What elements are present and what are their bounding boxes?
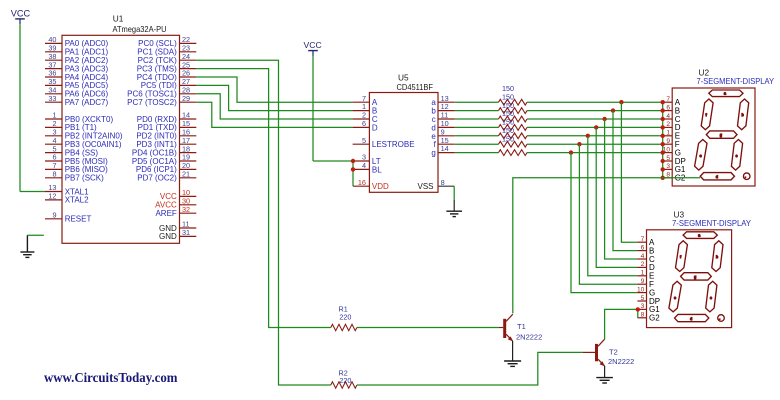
svg-text:5: 5 (362, 136, 366, 145)
svg-text:T2: T2 (609, 348, 618, 357)
resistor 150 (segment f) (455, 143, 499, 145)
svg-text:7: 7 (666, 96, 670, 103)
svg-text:a: a (698, 233, 700, 237)
wire T2 emitter to ground (604, 366, 606, 378)
svg-text:www.CircuitsToday.com: www.CircuitsToday.com (44, 370, 178, 385)
wire 150 resistor to U2 pin A (527, 101, 663, 103)
svg-text:6: 6 (362, 119, 366, 128)
power symbol VCC (above U5) (304, 40, 322, 56)
svg-text:7-SEGMENT-DISPLAY: 7-SEGMENT-DISPLAY (672, 218, 751, 228)
svg-text:5: 5 (666, 155, 670, 162)
svg-text:PB7 (SCK): PB7 (SCK) (65, 174, 104, 183)
wire T1 emitter to ground (512, 341, 514, 361)
svg-text:a: a (724, 92, 726, 96)
svg-text:e: e (674, 296, 676, 300)
U5 pin 3 LT (353, 160, 369, 162)
svg-text:5: 5 (641, 295, 645, 302)
svg-text:.: . (745, 175, 746, 179)
svg-text:D: D (372, 123, 378, 132)
svg-text:d: d (716, 175, 718, 179)
U5 pin 8 VSS (438, 185, 454, 187)
wire U3 G1 to G2 (637, 309, 639, 317)
resistor R2 220 (331, 382, 357, 388)
svg-text:XTAL2: XTAL2 (65, 196, 89, 205)
wire VCC to XTAL1 (horizontal) (20, 191, 45, 193)
U5 pin 4 BL (353, 168, 369, 170)
wire PC6 pin28 to U5 C (196, 94, 352, 119)
svg-text:g: g (694, 275, 696, 279)
resistor R1 220 (331, 324, 357, 330)
wire bus along U2 pins (vertical) (662, 102, 664, 178)
svg-text:VDD: VDD (372, 182, 389, 191)
resistor 150 (segment a) (455, 101, 499, 103)
junction U2 pin D (661, 125, 665, 129)
junction U2 pin A (661, 100, 665, 104)
svg-text:GND: GND (159, 232, 177, 241)
junction U2 pin G2 (661, 176, 665, 180)
svg-text:4: 4 (641, 253, 645, 260)
wire VCC down to U5 LT row (312, 55, 314, 161)
wire 150 resistor to U2 pin F (527, 143, 663, 145)
svg-text:CD4511BF: CD4511BF (397, 82, 434, 92)
wire segment D down to U3 pin D (596, 127, 637, 267)
svg-text:9: 9 (641, 278, 645, 285)
svg-text:2: 2 (666, 121, 670, 128)
svg-text:4: 4 (666, 113, 670, 120)
svg-text:f: f (680, 255, 681, 259)
svg-text:RESET: RESET (65, 215, 92, 224)
wire segment C down to U3 pin C (605, 119, 638, 259)
svg-text:8: 8 (441, 178, 445, 187)
resistor 150 (segment d) (455, 126, 499, 128)
svg-text:31: 31 (182, 228, 190, 237)
svg-text:c: c (710, 296, 712, 300)
wire VSS to ground (453, 186, 455, 200)
U5 output pins a-g (stubs, numbers, names) (438, 101, 455, 103)
svg-text:220: 220 (339, 376, 351, 385)
junction U2 pin DP (661, 159, 665, 163)
IC U1 ATmega32A-PU body (62, 35, 180, 243)
U1 left pins PA0-PA7 (stubs, numbers, names) (45, 42, 62, 44)
U1 pin 12 XTAL2 (45, 199, 62, 201)
svg-text:VCC: VCC (304, 40, 322, 50)
ground symbol below T1 (504, 361, 521, 366)
svg-text:BL: BL (372, 165, 382, 174)
svg-text:g: g (431, 149, 435, 158)
resistor 150 (segment c) (455, 118, 499, 120)
svg-text:AREF: AREF (155, 209, 176, 218)
svg-text:32: 32 (182, 205, 190, 214)
svg-text:PA7 (ADC7): PA7 (ADC7) (65, 98, 109, 107)
svg-text:8: 8 (52, 170, 56, 179)
svg-text:U1: U1 (113, 14, 124, 24)
U1 right pins PC0-PC7 (stubs, numbers, names) (180, 42, 197, 44)
junction U2 pin B (661, 108, 665, 112)
ground symbol below U5 VSS (446, 211, 462, 216)
wire 150 resistor to U2 pin B (527, 110, 663, 112)
wire ground stub near U1 (horizontal) (27, 234, 43, 236)
svg-text:150: 150 (502, 134, 514, 143)
svg-text:220: 220 (339, 312, 351, 321)
svg-text:g: g (720, 133, 722, 137)
svg-text:2: 2 (641, 261, 645, 268)
junction U2 pin G (661, 150, 665, 154)
U5 pin 5 LESTROBE (353, 143, 370, 145)
U2 seven-segment digit segments a-g and dp (695, 90, 750, 180)
svg-text:1: 1 (666, 130, 670, 137)
resistor 150 (segment g) (455, 152, 499, 154)
wire PC4 pin26 to U5 A (196, 77, 352, 102)
junction U2 pin G1 (661, 167, 665, 171)
svg-text:4: 4 (362, 161, 366, 170)
wire segment A down to U3 pin A (621, 102, 637, 242)
wire R2 to T2 base (357, 352, 583, 385)
U1 pin 10 VCC (180, 195, 197, 197)
svg-text:7-SEGMENT-DISPLAY: 7-SEGMENT-DISPLAY (697, 76, 775, 86)
U1 pin 11 GND (180, 227, 197, 229)
svg-text:9: 9 (666, 138, 670, 145)
junction U2 pin C (661, 117, 665, 121)
wire PC3 pin25 to R1 (196, 69, 330, 328)
wire segment G down to U3 pin G (571, 153, 637, 293)
svg-text:d: d (690, 317, 692, 321)
svg-text:21: 21 (182, 170, 190, 179)
U1 pin 13 XTAL1 (45, 191, 62, 193)
U1 pin 32 AREF (180, 212, 197, 214)
U1 pin 30 AVCC (180, 204, 197, 206)
svg-text:16: 16 (358, 178, 366, 187)
wire PC2 pin24 to R2 (196, 60, 330, 385)
svg-text:LESTROBE: LESTROBE (372, 140, 415, 149)
wire 150 resistor to U2 pin E (527, 135, 663, 137)
wire 150 resistor to U2 pin C (527, 118, 663, 120)
svg-text:b: b (716, 255, 718, 259)
svg-text:7: 7 (641, 236, 645, 243)
svg-text:c: c (736, 154, 738, 158)
transistor T2 2N2222 (583, 339, 605, 366)
svg-text:9: 9 (52, 211, 56, 220)
svg-text:1: 1 (641, 270, 645, 277)
svg-text:3: 3 (666, 163, 670, 170)
svg-text:14: 14 (441, 144, 449, 153)
junction U3 G1 (636, 307, 640, 311)
wire PC5 pin27 to U5 B (196, 85, 352, 110)
svg-text:G2: G2 (649, 314, 660, 323)
junction U2 pin E (661, 134, 665, 138)
svg-text:T1: T1 (517, 322, 526, 331)
U1 right pins PD0-PD7 (stubs, numbers, names) (180, 118, 197, 120)
svg-text:8: 8 (641, 312, 645, 319)
svg-text:33: 33 (48, 94, 56, 103)
svg-text:PC7 (TOSC2): PC7 (TOSC2) (127, 98, 177, 107)
U1 pin 31 GND (180, 235, 197, 237)
svg-text:12: 12 (48, 192, 56, 201)
svg-text:6: 6 (666, 104, 670, 111)
wire 150 resistor to U2 pin G (527, 152, 663, 154)
junction BL (351, 167, 355, 171)
svg-text:3: 3 (641, 303, 645, 310)
svg-text:2N2222: 2N2222 (516, 332, 542, 341)
resistor 150 (segment e) (455, 135, 499, 137)
svg-text:10: 10 (637, 286, 645, 293)
svg-text:ATmega32A-PU: ATmega32A-PU (113, 24, 167, 34)
svg-text:VSS: VSS (417, 182, 433, 191)
svg-text:f: f (706, 113, 707, 117)
wire segment F down to U3 pin F (579, 144, 637, 284)
U2 pins A-G2 (stubs, numbers, names) (663, 101, 673, 103)
resistor 150 (segment b) (455, 110, 499, 112)
wire VCC to XTAL1 (vertical) (19, 24, 21, 191)
svg-text:2N2222: 2N2222 (608, 357, 634, 366)
power symbol VCC (top-left) (11, 8, 31, 24)
U5 pin 16 VDD (353, 185, 369, 187)
wire VCC to U5 LT pin (313, 160, 353, 162)
U3 pins A-G2 (stubs, numbers, names) (637, 241, 646, 243)
svg-text:29: 29 (182, 94, 190, 103)
svg-text:b: b (742, 113, 744, 117)
U5 input pins A B C D (stubs, numbers, names) (353, 101, 370, 103)
IC U5 CD4511BF body (369, 93, 438, 193)
U1 left pins PB0-PB7 (stubs, numbers, names) (45, 118, 62, 120)
svg-text:e: e (700, 154, 702, 158)
wire segment B down to U3 pin B (613, 111, 637, 251)
U3 seven-segment digit segments a-g and dp (669, 232, 724, 322)
svg-text:.: . (719, 316, 720, 320)
wire U2 G2 row to T1 collector (513, 178, 700, 314)
transistor T1 2N2222 (499, 314, 513, 341)
wire segment E down to U3 pin E (588, 136, 638, 276)
wire PC7 pin29 to U5 D (196, 102, 352, 127)
ground symbol below T2 (596, 378, 613, 383)
svg-text:VCC: VCC (11, 8, 31, 18)
U1 pin 9 RESET (45, 218, 62, 220)
display U3 body (647, 230, 732, 328)
junction LT (351, 159, 355, 163)
wire 150 resistor to U2 pin D (527, 126, 663, 128)
svg-text:PD7 (OC2): PD7 (OC2) (137, 174, 177, 183)
wire R1 to T1 base (357, 327, 499, 329)
junction U2 pin F (661, 142, 665, 146)
wire LT-BL-VDD tie (vertical) (352, 161, 354, 186)
display U2 body (672, 88, 755, 186)
svg-text:6: 6 (641, 244, 645, 251)
wire T2 collector to U3 G1 (605, 309, 638, 339)
ground symbol bottom-left (20, 235, 34, 257)
